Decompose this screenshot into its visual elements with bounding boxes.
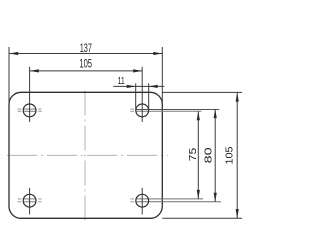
hole slot dashes BL <box>18 199 42 202</box>
center line vertical <box>84 91 86 223</box>
svg-text:137: 137 <box>80 41 92 55</box>
hole center line vertical TL (also ext for 105 dim) <box>29 67 31 122</box>
hole slot line BL <box>23 199 36 202</box>
ext line left for 137 <box>8 47 10 105</box>
svg-text:105: 105 <box>79 57 92 71</box>
hole TL <box>23 104 36 117</box>
dim line 75 right <box>197 111 199 199</box>
hole slot line TL upper <box>23 109 36 111</box>
svg-text:80: 80 <box>202 147 214 163</box>
hole slot dashes TR <box>130 109 134 111</box>
hole BR <box>136 194 149 207</box>
center line horizontal <box>7 154 168 156</box>
hole center line vertical BR <box>141 188 143 215</box>
ext line right for 11 <box>148 83 150 110</box>
ext line right for 137 <box>161 47 163 105</box>
hole center line vertical TR (also ext for 105 dim) <box>141 67 143 122</box>
hole center line vertical BL <box>29 188 31 215</box>
hole slot lines TR + extension to 75/80 dims <box>136 110 219 112</box>
hole TR <box>136 104 149 117</box>
ext line left for 11 <box>135 83 137 110</box>
hole slot dashes BR <box>130 199 134 202</box>
dim line 137 <box>9 53 162 55</box>
hole slot lines BR + extension to 75/80 dims <box>136 199 221 202</box>
dim line 80 right <box>214 109 216 202</box>
svg-text:105: 105 <box>223 146 235 164</box>
ext line bottom for 105 right <box>162 217 242 219</box>
svg-text:75: 75 <box>187 148 199 162</box>
dim line 105 top <box>30 70 143 72</box>
plate outline <box>9 92 162 218</box>
dim line 105 right <box>236 92 238 218</box>
hole BL <box>23 194 36 207</box>
svg-text:11: 11 <box>118 76 125 87</box>
hole slot dashes TL <box>18 109 42 111</box>
ext line top for 105 right <box>162 91 242 93</box>
dim line 11 <box>113 85 164 87</box>
